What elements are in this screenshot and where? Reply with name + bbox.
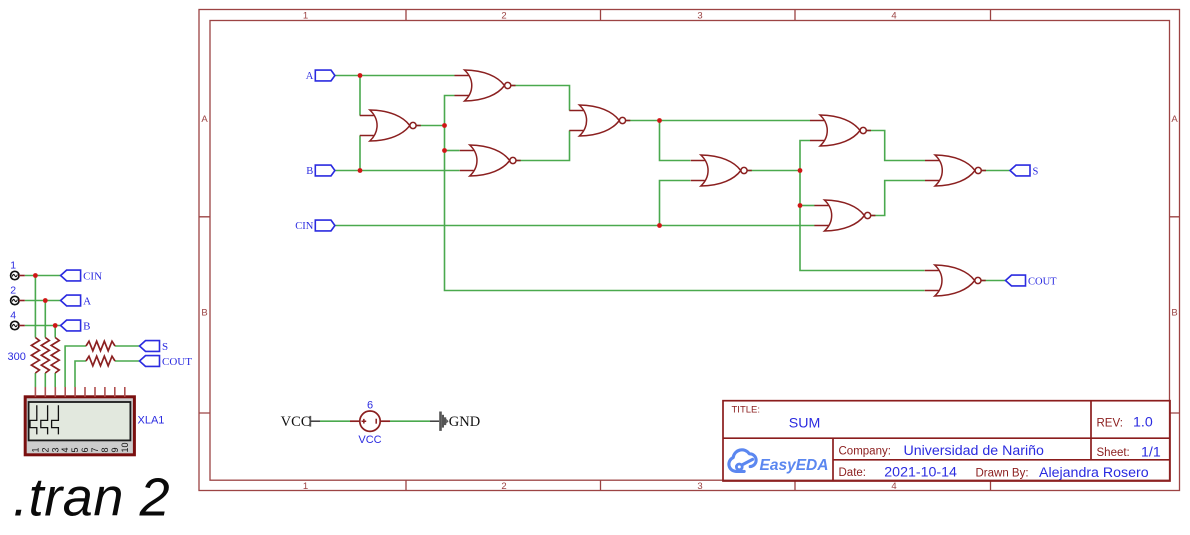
- junction source1 tap: [33, 273, 38, 278]
- wire net A: [335, 75, 455, 77]
- svg-text:A: A: [201, 114, 208, 125]
- svg-text:TITLE:: TITLE:: [732, 405, 761, 416]
- svg-text:4: 4: [10, 310, 16, 322]
- junction CIN node: [657, 223, 662, 228]
- svg-text:3: 3: [697, 10, 702, 21]
- NOR gate G6: [810, 115, 871, 146]
- wire junction to gate G4 top input: [445, 150, 460, 152]
- svg-text:1: 1: [30, 447, 40, 452]
- svg-text:S: S: [162, 341, 168, 353]
- title block labels: [732, 405, 1130, 480]
- resistor R4 (to S): [86, 341, 115, 351]
- junction G2 output to G4: [442, 148, 447, 153]
- svg-text:Alejandra Rosero: Alejandra Rosero: [1039, 465, 1149, 481]
- wire gate G5 output to vertical bus: [747, 170, 800, 172]
- wire vertical bus x=800: [800, 141, 925, 271]
- voltage source 2: [10, 285, 24, 305]
- svg-text:2: 2: [10, 285, 16, 297]
- svg-text:8: 8: [100, 447, 110, 452]
- wire source 1 to flag CIN: [25, 275, 61, 277]
- wire XLA1 pin 5 to resistor R5: [75, 361, 86, 387]
- voltage source 1: [10, 260, 24, 280]
- wire A tap to gate G2 top input: [359, 76, 361, 116]
- wire CIN branch to gate G5 bottom input: [660, 181, 691, 226]
- svg-text:2021-10-14: 2021-10-14: [884, 464, 957, 480]
- svg-text:A: A: [83, 295, 91, 307]
- svg-text:CIN: CIN: [83, 270, 102, 282]
- svg-text:A: A: [1171, 114, 1178, 125]
- wire net CIN: [335, 225, 815, 227]
- svg-text:CIN: CIN: [295, 221, 314, 232]
- logic analyzer XLA1: [25, 387, 134, 455]
- net flag A: [306, 70, 335, 82]
- title block: [723, 401, 1170, 481]
- junction source4 tap: [53, 323, 58, 328]
- svg-text:Universidad de Nariño: Universidad de Nariño: [904, 443, 1044, 459]
- resistor R3 (300): [51, 338, 59, 374]
- NOR gate G4: [460, 145, 521, 176]
- svg-text:7: 7: [90, 447, 100, 452]
- NOR gate G1 (A,B): [455, 70, 516, 101]
- svg-text:6: 6: [367, 400, 373, 412]
- junction G3 output node: [657, 118, 662, 123]
- net flag B: [306, 165, 335, 177]
- net flag S (test bench): [140, 341, 169, 353]
- svg-text:3: 3: [697, 481, 702, 492]
- junction bus to G6b: [798, 203, 803, 208]
- NOR gate G6b: [814, 200, 875, 231]
- svg-text:B: B: [1171, 308, 1177, 319]
- wire gate G6 output to gate G7 top input: [866, 131, 925, 161]
- wire gate G6b output to gate G7 bottom input: [871, 181, 925, 216]
- wire gate G8 output to flag COUT: [978, 280, 1006, 282]
- net flag A (test bench): [61, 295, 92, 307]
- wire R3 to XLA1 pin 3: [54, 373, 56, 387]
- junction G5 output node: [798, 168, 803, 173]
- wire bus tap to gate G6b top input: [800, 205, 815, 207]
- wire branch to gate G5 top input: [660, 121, 691, 161]
- junction source2 tap: [43, 298, 48, 303]
- wire R1 to XLA1 pin 1: [34, 373, 36, 387]
- svg-text:1.0: 1.0: [1133, 415, 1153, 431]
- svg-text:10: 10: [120, 442, 130, 452]
- svg-text:9: 9: [110, 447, 120, 452]
- svg-text:REV:: REV:: [1097, 417, 1123, 429]
- NOR gate G2 (A,B): [360, 110, 421, 141]
- svg-text:2: 2: [501, 10, 506, 21]
- wire source 2 to flag A: [25, 300, 61, 302]
- NOR gate G8 (carry output): [925, 265, 986, 296]
- wire XLA1 pin 4 to resistor R4: [65, 346, 86, 387]
- svg-text:Company:: Company:: [839, 445, 891, 457]
- NOR gate G5: [691, 155, 752, 186]
- svg-text:3: 3: [50, 447, 60, 452]
- wire gate G4 output to gate G3 bottom input: [516, 131, 570, 161]
- svg-text:Drawn By:: Drawn By:: [976, 467, 1029, 479]
- svg-text:5: 5: [70, 447, 80, 452]
- svg-text:B: B: [306, 166, 313, 177]
- svg-text:2: 2: [40, 447, 50, 452]
- resistor R2 (300): [41, 338, 49, 374]
- svg-text:4: 4: [891, 10, 896, 21]
- svg-text:EasyEDA: EasyEDA: [760, 457, 829, 474]
- svg-text:Sheet:: Sheet:: [1097, 447, 1130, 459]
- title block values: [789, 415, 1161, 481]
- svg-text:XLA1: XLA1: [138, 415, 165, 427]
- EasyEDA logo: [729, 450, 756, 472]
- svg-text:B: B: [201, 308, 207, 319]
- ground GND: [439, 412, 448, 431]
- wire source 4 to flag B: [25, 325, 61, 327]
- svg-text:1/1: 1/1: [1141, 444, 1161, 460]
- wire tap B to resistor R3: [54, 326, 56, 338]
- wire gate G1 output to gate G3 top input: [510, 86, 569, 111]
- wire resistor R5 to flag COUT: [115, 360, 140, 362]
- net flag COUT (test bench): [140, 356, 193, 368]
- resistor R5 (to COUT): [86, 356, 115, 366]
- svg-text:4: 4: [891, 481, 896, 492]
- net flag COUT: [1006, 275, 1058, 287]
- junction G2 output: [442, 123, 447, 128]
- net port VCC: [281, 414, 320, 430]
- svg-text:.tran 2: .tran 2: [13, 468, 170, 528]
- voltage source 4: [10, 310, 24, 330]
- svg-text:B: B: [83, 320, 90, 332]
- svg-text:A: A: [306, 71, 314, 82]
- svg-text:1: 1: [10, 260, 16, 272]
- voltage source 6 (VCC): [350, 411, 390, 431]
- net flag B (test bench): [61, 320, 91, 332]
- svg-text:SUM: SUM: [789, 415, 821, 431]
- svg-text:VCC: VCC: [281, 414, 311, 430]
- NOR gate G3: [569, 105, 630, 136]
- wire R2 to XLA1 pin 2: [44, 373, 46, 387]
- svg-text:S: S: [1033, 166, 1039, 177]
- svg-text:6: 6: [80, 447, 90, 452]
- wire net B: [335, 170, 460, 172]
- wire source 6 to GND: [390, 420, 430, 422]
- svg-text:2: 2: [501, 481, 506, 492]
- wire B tap to gate G2 bottom input: [359, 136, 361, 171]
- svg-text:1: 1: [303, 481, 308, 492]
- net flag CIN (test bench): [61, 270, 103, 282]
- NOR gate G7 (sum output): [925, 155, 986, 186]
- svg-text:GND: GND: [449, 414, 480, 430]
- junction B / gate inputs: [358, 168, 363, 173]
- wire gate G2 output net (to G1 lower input and long run to G8): [445, 96, 925, 291]
- svg-text:1: 1: [303, 10, 308, 21]
- wire tap CIN to resistor R1: [34, 276, 36, 338]
- svg-text:300: 300: [8, 351, 26, 363]
- svg-text:COUT: COUT: [1028, 276, 1057, 287]
- svg-text:Date:: Date:: [839, 467, 867, 479]
- wire resistor R4 to flag S: [115, 345, 140, 347]
- wire gate G2 output to junction: [416, 125, 445, 127]
- svg-text:COUT: COUT: [162, 356, 192, 368]
- wire gate G3 output to gate G6 top input: [626, 120, 810, 122]
- wire VCC to source 6: [320, 420, 350, 422]
- svg-text:VCC: VCC: [358, 434, 381, 446]
- net flag CIN: [295, 220, 335, 232]
- net flag S: [1010, 165, 1039, 177]
- junction A / gate inputs: [358, 73, 363, 78]
- wire gate G7 output to flag S: [978, 170, 1010, 172]
- wire tap A to resistor R2: [44, 301, 46, 338]
- svg-text:4: 4: [60, 447, 70, 452]
- resistor R1 (300): [31, 338, 39, 374]
